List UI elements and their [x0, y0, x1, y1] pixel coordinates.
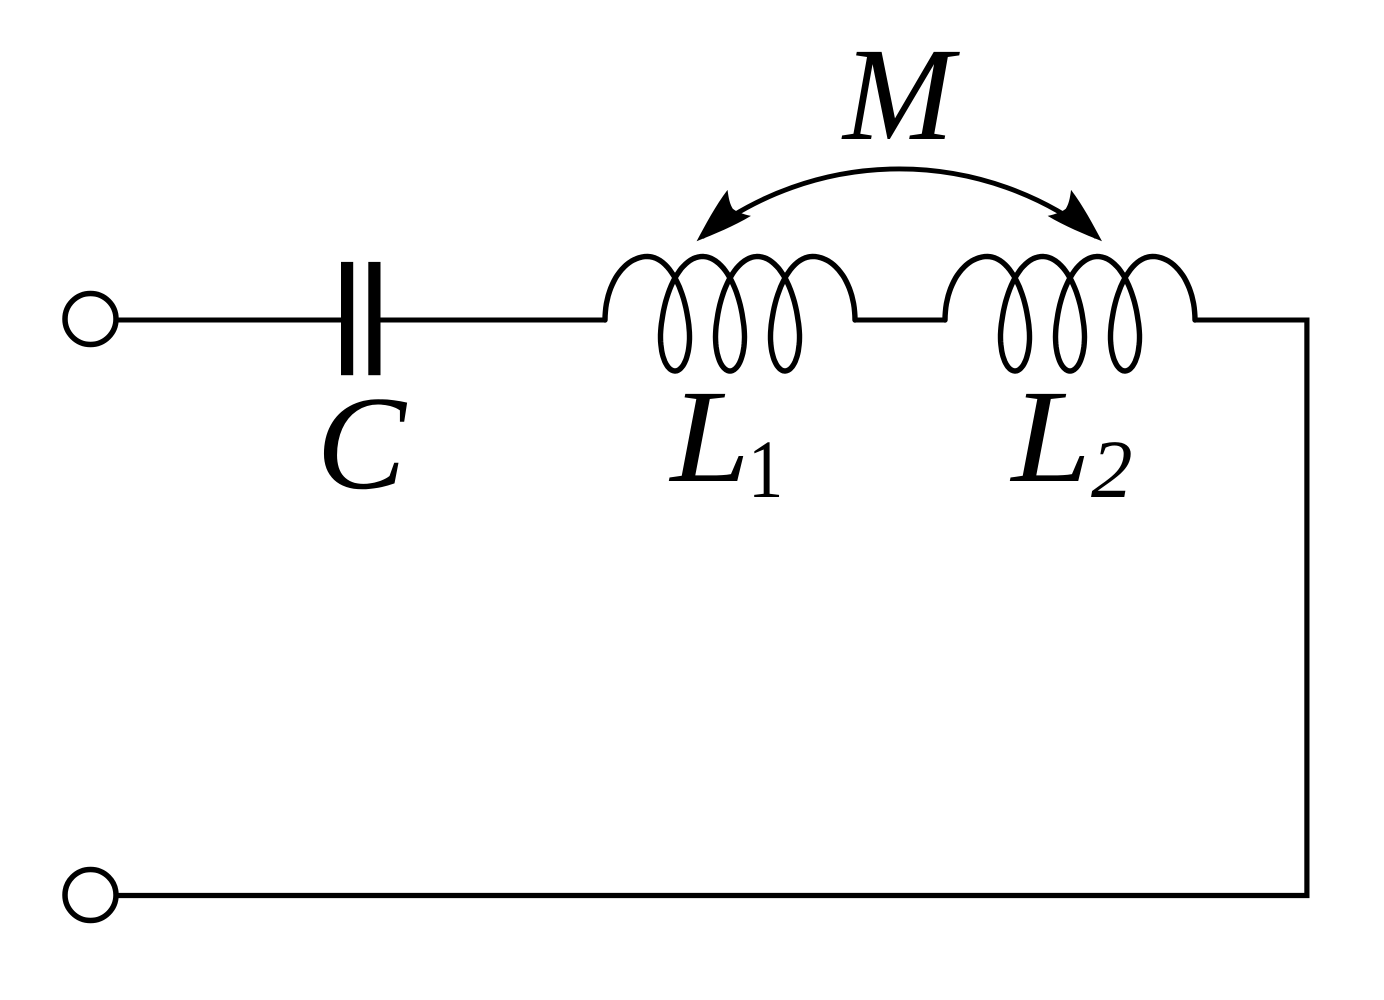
wire: capacitor to inductor L1 [381, 318, 607, 323]
wire: L2 to top-right corner [1194, 318, 1307, 323]
arrowhead right [1048, 190, 1114, 254]
terminal T2 (bottom-left) [65, 870, 116, 921]
wire: L1 to L2 [854, 318, 946, 323]
wire: right vertical [1304, 318, 1309, 896]
svg-text:C: C [317, 369, 408, 517]
terminal T1 (top-left input) [65, 294, 116, 345]
wire: bottom horizontal [118, 893, 1310, 898]
arrowhead left [685, 190, 751, 254]
svg-text:1: 1 [748, 423, 783, 516]
inductor L1 coil [605, 257, 855, 372]
label L1 [668, 363, 750, 510]
svg-text:M: M [841, 20, 960, 168]
capacitor C1 right plate [368, 262, 380, 375]
inductor L2 coil [945, 257, 1195, 372]
svg-text:L: L [1009, 363, 1091, 510]
svg-text:2: 2 [1091, 423, 1133, 515]
wire top-left: terminal to capacitor [119, 318, 342, 323]
capacitor C1 left plate [341, 262, 353, 375]
mutual inductance arc M (double-headed arrow) [702, 169, 1097, 237]
label L2 [1009, 363, 1091, 510]
svg-text:L: L [668, 363, 750, 510]
